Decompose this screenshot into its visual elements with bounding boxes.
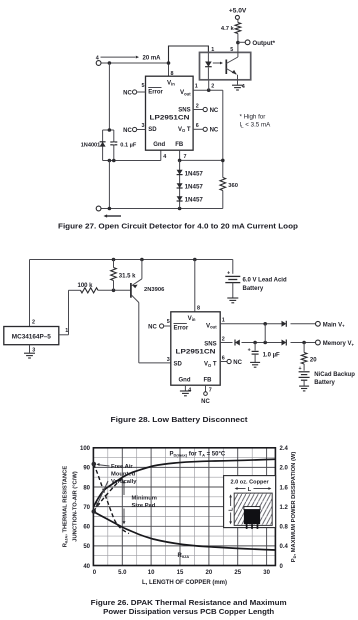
wire MC pin3 — [29, 345, 31, 353]
svg-text:Figure 27. Open Circuit Detect: Figure 27. Open Circuit Detector for 4.0… — [58, 224, 298, 231]
inset box copper pad — [224, 476, 276, 528]
svg-text:VO T: VO T — [178, 127, 191, 133]
svg-text:NC: NC — [201, 399, 210, 405]
svg-text:2: 2 — [32, 320, 35, 326]
wire rail to MC pin2 — [29, 260, 31, 327]
svg-text:Output*: Output* — [252, 40, 275, 47]
curve PD max — [93, 459, 275, 507]
svg-text:1: 1 — [195, 84, 198, 90]
svg-text:NC: NC — [210, 108, 219, 114]
note high for IL — [240, 113, 272, 129]
svg-text:10: 10 — [148, 570, 155, 576]
resistor 20 — [301, 343, 317, 371]
wire top rail — [30, 259, 233, 261]
svg-text:1: 1 — [222, 318, 225, 324]
wire Vout line — [220, 323, 315, 325]
node FB junction — [178, 159, 225, 163]
svg-text:Error: Error — [174, 325, 189, 331]
diode D3 1N457 — [177, 196, 204, 204]
svg-text:1: 1 — [65, 328, 68, 334]
NC SD pin — [123, 127, 145, 133]
x axis labels — [93, 570, 271, 576]
svg-text:NC: NC — [123, 90, 132, 96]
svg-text:0.4: 0.4 — [280, 544, 289, 550]
svg-text:JUNCTION-TO-AIR (°C/W): JUNCTION-TO-AIR (°C/W) — [73, 471, 79, 542]
svg-text:3: 3 — [167, 357, 170, 363]
svg-text:NC: NC — [148, 324, 157, 330]
diode memory — [282, 340, 287, 346]
point free air P — [92, 509, 97, 514]
inset hatched copper area — [234, 493, 272, 525]
NC error pin — [123, 90, 145, 96]
grid major — [93, 448, 275, 566]
capacitor 1.0uF — [248, 343, 280, 363]
svg-text:Figure 26. DPAK Thermal Resist: Figure 26. DPAK Thermal Resistance and M… — [91, 600, 287, 607]
diode D2 1N457 — [177, 183, 204, 191]
ground opto — [232, 84, 243, 86]
wire bottom rail — [101, 208, 223, 210]
svg-text:Main V+: Main V+ — [323, 322, 345, 328]
svg-text:5: 5 — [142, 83, 145, 89]
wire emitter up — [141, 260, 143, 279]
svg-text:NC: NC — [123, 128, 132, 134]
opto light arrow — [213, 62, 223, 65]
svg-text:LP2951CN: LP2951CN — [176, 348, 216, 355]
svg-text:6: 6 — [196, 123, 199, 129]
diode D1 1N457 — [177, 170, 204, 178]
svg-text:Gnd: Gnd — [179, 377, 191, 383]
wire Vout to node — [193, 89, 223, 91]
svg-text:+: + — [248, 348, 251, 354]
diode 1N4001 — [81, 142, 106, 149]
svg-text:Error: Error — [148, 89, 163, 95]
svg-text:70: 70 — [83, 505, 90, 511]
svg-text:Memory V+: Memory V+ — [323, 341, 355, 347]
svg-text:MC34164P–5: MC34164P–5 — [12, 334, 52, 341]
svg-text:FB: FB — [175, 142, 184, 148]
NC error U3 — [148, 324, 171, 331]
terminal input top — [96, 61, 101, 66]
label NiCad battery — [314, 372, 355, 386]
wire Vout down to FB node — [222, 90, 224, 177]
wire Vin pin 8 — [168, 63, 170, 76]
svg-text:SD: SD — [174, 362, 183, 368]
svg-text:Mounted: Mounted — [111, 472, 136, 478]
svg-text:20: 20 — [310, 358, 317, 364]
svg-text:Gnd: Gnd — [153, 142, 165, 148]
wire base — [98, 289, 130, 291]
svg-text:1.2: 1.2 — [280, 505, 289, 511]
NC SNS pin — [193, 107, 219, 113]
optocoupler U2 box — [200, 52, 251, 79]
svg-text:5: 5 — [230, 47, 233, 53]
arrow 20 mA — [96, 55, 161, 61]
svg-text:RθJA: RθJA — [178, 553, 190, 559]
svg-text:L: L — [248, 487, 252, 493]
opto transistor Q — [226, 57, 238, 74]
op-amp regulator U3 LP2951CN — [171, 312, 220, 385]
svg-text:50: 50 — [83, 544, 90, 550]
svg-text:* High for: * High for — [240, 113, 266, 120]
svg-text:30: 30 — [263, 570, 270, 576]
svg-text:LP2951CN: LP2951CN — [150, 114, 190, 121]
svg-text:3: 3 — [142, 123, 145, 129]
svg-text:2.4: 2.4 — [280, 446, 289, 452]
svg-text:L: L — [228, 507, 234, 511]
resistor 100k — [69, 283, 99, 293]
wire rail to battery — [232, 260, 234, 274]
svg-text:Battery: Battery — [314, 380, 335, 386]
resistor 360 — [220, 178, 238, 209]
wire input rail — [101, 62, 168, 64]
U3 label Error — [174, 324, 189, 332]
svg-text:+5.0V: +5.0V — [229, 8, 247, 15]
op-amp regulator U1 LP2951CN — [146, 76, 194, 150]
svg-text:2: 2 — [222, 336, 225, 342]
svg-text:VO T: VO T — [204, 362, 217, 368]
svg-text:PD(max) for TA = 50°C: PD(max) for TA = 50°C — [170, 451, 226, 457]
svg-text:SD: SD — [148, 127, 157, 133]
supply +5.0V — [229, 8, 247, 20]
svg-text:100 k: 100 k — [78, 283, 94, 289]
wire MC pin1 — [59, 290, 69, 335]
svg-text:20 mA: 20 mA — [143, 56, 162, 62]
svg-text:1.6: 1.6 — [280, 485, 289, 491]
svg-text:100: 100 — [80, 446, 91, 452]
svg-text:NiCad Backup: NiCad Backup — [314, 372, 355, 378]
wire down to bottom rail — [108, 161, 110, 209]
opto LED — [205, 53, 212, 80]
y axis left labels — [80, 446, 91, 570]
svg-text:1N457: 1N457 — [185, 197, 204, 204]
inset L arrow horizontal — [235, 487, 272, 493]
terminal Main V+ — [316, 321, 346, 328]
svg-text:15: 15 — [177, 570, 184, 576]
svg-text:Free Air: Free Air — [111, 464, 133, 470]
ground NiCad — [299, 385, 309, 387]
svg-text:1N4001: 1N4001 — [81, 142, 101, 148]
svg-text:2.0 oz. Copper: 2.0 oz. Copper — [230, 479, 269, 485]
wire opto pin2 down — [208, 80, 210, 90]
inset L arrow vertical — [228, 494, 234, 524]
svg-text:6: 6 — [222, 355, 225, 361]
arrow to free air P point — [96, 481, 108, 508]
terminal Memory V+ — [316, 340, 355, 347]
svg-text:Figure 28. Low Battery Disconn: Figure 28. Low Battery Disconnect — [111, 417, 249, 424]
svg-text:7: 7 — [184, 154, 187, 160]
diode main — [282, 321, 287, 327]
node input junction — [108, 61, 171, 65]
svg-text:FB: FB — [204, 377, 213, 383]
svg-text:SNS: SNS — [204, 342, 216, 348]
label lead acid battery — [243, 278, 287, 292]
ground capacitor — [250, 361, 260, 363]
wire pin5 collector — [237, 43, 239, 57]
wire Vin pin8 — [194, 260, 196, 312]
NC VoT U3 — [220, 359, 242, 366]
node base junction — [112, 289, 116, 293]
svg-text:IL < 3.5 mA: IL < 3.5 mA — [240, 122, 272, 129]
wire to opto LED — [169, 46, 209, 63]
svg-text:5.0: 5.0 — [118, 570, 127, 576]
svg-text:Minimum: Minimum — [132, 496, 157, 502]
arrow min pad up — [123, 480, 126, 495]
svg-text:31.5 k: 31.5 k — [119, 274, 136, 280]
battery 6V lead acid — [225, 271, 240, 298]
svg-text:2N3906: 2N3906 — [144, 287, 165, 293]
svg-text:SNS: SNS — [178, 108, 190, 114]
svg-text:+: + — [227, 271, 230, 277]
NC FB pin — [201, 385, 210, 405]
node network bottom — [108, 159, 116, 163]
IC MC34164P-5 — [4, 327, 59, 345]
svg-text:3: 3 — [32, 347, 35, 353]
grid minor — [93, 448, 275, 566]
node SNS junctions — [253, 341, 306, 345]
node rail junctions — [112, 258, 197, 262]
svg-text:1N457: 1N457 — [185, 184, 204, 191]
battery NiCad — [298, 366, 309, 386]
transistor Q1 2N3906 — [131, 279, 165, 303]
svg-text:0.8: 0.8 — [280, 525, 289, 531]
svg-text:25: 25 — [234, 570, 241, 576]
node Vout junction — [263, 322, 267, 326]
ground U3 gnd pin — [180, 385, 191, 396]
inset DPAK package — [244, 507, 260, 529]
svg-text:NC: NC — [210, 128, 219, 134]
label minimum size pad — [132, 496, 157, 510]
wire FB pin down — [180, 150, 223, 160]
svg-text:7: 7 — [209, 388, 212, 394]
arrow min pad down — [123, 509, 126, 525]
node Vout junction — [207, 88, 211, 92]
svg-text:PD, MAXIMUM POWER DISSIPATION: PD, MAXIMUM POWER DISSIPATION (W) — [291, 452, 297, 563]
svg-text:Power Dissipation versus PCB C: Power Dissipation versus PCB Copper Leng… — [103, 609, 274, 616]
curve dashed free air R — [93, 464, 129, 534]
svg-text:RθJA, THERMAL RESISTANCE: RθJA, THERMAL RESISTANCE — [63, 466, 69, 548]
wire terminal down — [108, 63, 110, 130]
wire diode chain — [179, 160, 181, 208]
node bottom rail junctions — [108, 207, 182, 211]
svg-text:1: 1 — [211, 47, 214, 53]
svg-text:8: 8 — [171, 71, 174, 77]
NC VoT pin — [193, 127, 219, 133]
capacitor 0.1uF — [99, 141, 137, 148]
svg-text:60: 60 — [83, 525, 90, 531]
terminal Output — [238, 40, 276, 47]
svg-text:20: 20 — [206, 570, 213, 576]
svg-text:0.1 µF: 0.1 µF — [120, 143, 137, 149]
U1 label Error — [148, 88, 163, 96]
svg-text:80: 80 — [83, 485, 90, 491]
y axis right labels — [280, 446, 289, 570]
svg-text:6.0 V Lead Acid: 6.0 V Lead Acid — [243, 278, 287, 284]
ground MC34164 — [24, 352, 35, 354]
label free air — [111, 464, 137, 485]
node output junction — [236, 41, 240, 45]
diode SNS left — [235, 340, 240, 346]
wire protection network rails — [103, 130, 161, 161]
svg-text:40: 40 — [83, 564, 90, 570]
arrow return current — [104, 214, 122, 217]
svg-text:4: 4 — [96, 55, 99, 61]
svg-text:4: 4 — [163, 154, 166, 160]
svg-text:90: 90 — [83, 466, 90, 472]
terminal input bottom — [96, 206, 101, 211]
svg-text:1.0 µF: 1.0 µF — [263, 352, 280, 358]
svg-text:L, LENGTH OF COPPER (mm): L, LENGTH OF COPPER (mm) — [142, 580, 227, 586]
svg-text:360: 360 — [228, 183, 238, 189]
svg-text:8: 8 — [197, 306, 200, 312]
wire SNS line — [220, 342, 315, 344]
svg-text:4.7 k: 4.7 k — [221, 26, 235, 32]
resistor 31.5k — [111, 260, 136, 291]
svg-text:5: 5 — [167, 319, 170, 325]
curve dashed free air P — [93, 477, 124, 512]
svg-text:NC: NC — [233, 360, 242, 366]
svg-text:2: 2 — [211, 83, 214, 89]
svg-text:2: 2 — [196, 104, 199, 110]
svg-text:Size Pad: Size Pad — [132, 503, 156, 509]
point free air R — [92, 462, 97, 467]
wire collector to SD — [139, 303, 171, 363]
plot frame — [93, 448, 275, 566]
resistor 4.7k — [221, 20, 241, 43]
svg-text:Battery: Battery — [243, 286, 264, 292]
arrow to free air R point — [96, 463, 109, 466]
curve RthJA — [93, 512, 275, 551]
ground battery — [227, 297, 238, 299]
wire link Vout-SNS — [264, 324, 266, 343]
wire emitter to ground — [237, 75, 239, 85]
svg-text:1N457: 1N457 — [185, 170, 204, 177]
svg-text:2.0: 2.0 — [280, 466, 289, 472]
node network top — [108, 128, 112, 132]
